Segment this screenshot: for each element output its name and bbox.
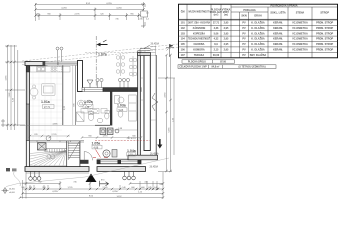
svg-text:1.01a: 1.01a — [41, 100, 50, 104]
svg-text:4,88: 4,88 — [94, 146, 99, 149]
svg-text:106: 106 — [181, 49, 186, 52]
svg-text:KERAM.: KERAM. — [273, 32, 283, 35]
svg-text:SKN: SKN — [241, 15, 246, 18]
svg-text:104: 104 — [181, 38, 186, 41]
svg-text:PODLAHA: PODLAHA — [243, 9, 256, 12]
svg-text:VC.OMIETKA: VC.OMIETKA — [292, 22, 308, 25]
svg-text:3,065: 3,065 — [6, 75, 8, 81]
svg-text:27,71: 27,71 — [44, 106, 51, 109]
svg-text:KERAM.: KERAM. — [273, 38, 283, 41]
svg-text:(m): (m) — [224, 14, 228, 17]
svg-text:TERASA: TERASA — [194, 54, 204, 57]
svg-text:30,00: 30,00 — [213, 54, 220, 57]
svg-text:NÁZOV MIESTNOSTI: NÁZOV MIESTNOSTI — [189, 11, 210, 14]
svg-text:(S TETIVOU JEDNOTKA): (S TETIVOU JEDNOTKA) — [239, 66, 266, 69]
svg-text:2,15: 2,15 — [128, 154, 133, 157]
svg-text:PRDN. STROP: PRDN. STROP — [316, 22, 333, 25]
svg-text:4,255: 4,255 — [61, 8, 67, 10]
svg-text:PV: PV — [242, 43, 246, 46]
svg-text:26,450A: 26,450A — [151, 43, 160, 46]
svg-text:KOMORA: KOMORA — [193, 49, 205, 52]
svg-text:5,06: 5,06 — [119, 109, 124, 112]
svg-text:K. DLAŽBA: K. DLAŽBA — [251, 43, 265, 46]
svg-text:PV: PV — [242, 32, 246, 35]
svg-text:102: 102 — [181, 27, 186, 30]
svg-text:K. DLAŽBA: K. DLAŽBA — [251, 27, 265, 30]
svg-text:5,06: 5,06 — [214, 32, 219, 35]
svg-text:7,980: 7,980 — [9, 92, 11, 98]
svg-text:PV: PV — [242, 27, 246, 30]
svg-text:2,145: 2,145 — [102, 187, 108, 189]
svg-text:26,450A: 26,450A — [150, 165, 159, 168]
svg-text:103: 103 — [181, 32, 186, 35]
svg-text:1.04a: 1.04a — [127, 149, 136, 153]
svg-text:PV: PV — [242, 49, 246, 52]
svg-text:1.05a: 1.05a — [92, 141, 101, 145]
svg-text:2,950: 2,950 — [165, 92, 167, 98]
svg-text:1.03a: 1.03a — [117, 104, 126, 108]
svg-text:VC.OMIETKA: VC.OMIETKA — [292, 27, 308, 30]
svg-text:2,195: 2,195 — [74, 14, 80, 16]
svg-text:EI 30 D1: EI 30 D1 — [128, 138, 137, 140]
svg-text:107: 107 — [181, 54, 186, 57]
svg-text:ČM: ČM — [181, 11, 185, 14]
svg-text:PRDN. STROP: PRDN. STROP — [316, 49, 333, 52]
svg-text:14,52: 14,52 — [116, 196, 122, 198]
svg-text:PV: PV — [242, 38, 246, 41]
svg-text:4,36: 4,36 — [214, 27, 219, 30]
svg-text:4,36: 4,36 — [85, 106, 90, 109]
svg-text:2,95: 2,95 — [224, 49, 229, 52]
svg-text:VC.OMIETKA: VC.OMIETKA — [292, 43, 308, 46]
svg-text:5,065: 5,065 — [169, 127, 171, 133]
svg-text:4,32: 4,32 — [214, 38, 219, 41]
svg-text:101: 101 — [181, 22, 186, 25]
svg-text:BET. DLAŽBA: BET. DLAŽBA — [250, 54, 267, 57]
svg-text:KERAM.: KERAM. — [273, 27, 283, 30]
svg-text:VC.OMIETKA: VC.OMIETKA — [292, 49, 308, 52]
svg-text:1.02a: 1.02a — [84, 100, 93, 104]
svg-text:STROP: STROP — [320, 12, 329, 15]
svg-text:PRDN. STROP: PRDN. STROP — [316, 38, 333, 41]
svg-text:1,745: 1,745 — [67, 187, 73, 189]
svg-text:CHODBA: CHODBA — [194, 43, 205, 46]
svg-text:KERAM.: KERAM. — [273, 22, 283, 25]
svg-text:1,970: 1,970 — [102, 136, 108, 138]
svg-text:PLOCHA SPOLU: PLOCHA SPOLU — [188, 61, 207, 64]
svg-text:2,95: 2,95 — [224, 27, 229, 30]
svg-text:2,95: 2,95 — [224, 22, 229, 25]
svg-text:26,450: 26,450 — [9, 189, 15, 191]
svg-text:KÚPEĽŇA: KÚPEĽŇA — [193, 32, 205, 35]
svg-text:SOKL, LIŠTA: SOKL, LIŠTA — [270, 12, 286, 15]
svg-text:4,255: 4,255 — [52, 191, 58, 193]
svg-text:KERAM.: KERAM. — [273, 49, 283, 52]
svg-text:KERAM.: KERAM. — [273, 43, 283, 46]
svg-text:2,95: 2,95 — [224, 43, 229, 46]
svg-text:PRDN. STROP: PRDN. STROP — [316, 43, 333, 46]
svg-text:K. DLAŽBA: K. DLAŽBA — [251, 32, 265, 35]
svg-text:4,255: 4,255 — [106, 3, 112, 5]
svg-text:VC.OMIETKA: VC.OMIETKA — [292, 32, 308, 35]
svg-text:DRUH: DRUH — [254, 15, 261, 18]
svg-text:STENA: STENA — [296, 12, 305, 15]
svg-text:4,685: 4,685 — [52, 124, 58, 126]
svg-text:ZÁDVERIE: ZÁDVERIE — [193, 27, 206, 30]
svg-text:8,9: 8,9 — [214, 43, 218, 46]
svg-text:TECHNICKÁ MIESTNOSŤ: TECHNICKÁ MIESTNOSŤ — [188, 38, 210, 41]
svg-text:2,95: 2,95 — [224, 38, 229, 41]
svg-text:POVRCHOVÁ ÚPRAVA: POVRCHOVÁ ÚPRAVA — [271, 4, 298, 7]
svg-text:105: 105 — [181, 43, 186, 46]
svg-text:(m²): (m²) — [214, 13, 219, 17]
svg-text:±0,000: ±0,000 — [9, 192, 15, 194]
svg-text:2,95: 2,95 — [224, 32, 229, 35]
svg-text:OBYT. IZBA - KUCHYŇA: OBYT. IZBA - KUCHYŇA — [188, 22, 210, 25]
svg-text:CELKOVÁ PLOCHA 1 NP: CELKOVÁ PLOCHA 1 NP — [179, 66, 207, 69]
svg-text:PV: PV — [242, 54, 246, 57]
svg-text:4,250: 4,250 — [116, 8, 122, 10]
svg-text:K. DLAŽBA: K. DLAŽBA — [251, 49, 265, 52]
svg-text:2,15: 2,15 — [214, 49, 219, 52]
svg-text:97,06: 97,06 — [220, 62, 226, 64]
svg-text:VC.OMIETKA: VC.OMIETKA — [292, 38, 308, 41]
svg-text:4,250: 4,250 — [112, 191, 118, 193]
svg-text:K. DLAŽBA: K. DLAŽBA — [251, 38, 265, 41]
svg-text:PRDN. STROP: PRDN. STROP — [316, 32, 333, 35]
svg-text:1.07a: 1.07a — [98, 52, 107, 56]
svg-text:PRDN. STROP: PRDN. STROP — [316, 27, 333, 30]
svg-text:27,71: 27,71 — [213, 22, 220, 25]
svg-text:K. DLAŽBA: K. DLAŽBA — [251, 22, 265, 25]
svg-text:26,450A: 26,450A — [150, 153, 159, 156]
svg-text:2,745: 2,745 — [51, 134, 57, 136]
svg-text:PV: PV — [242, 22, 246, 25]
